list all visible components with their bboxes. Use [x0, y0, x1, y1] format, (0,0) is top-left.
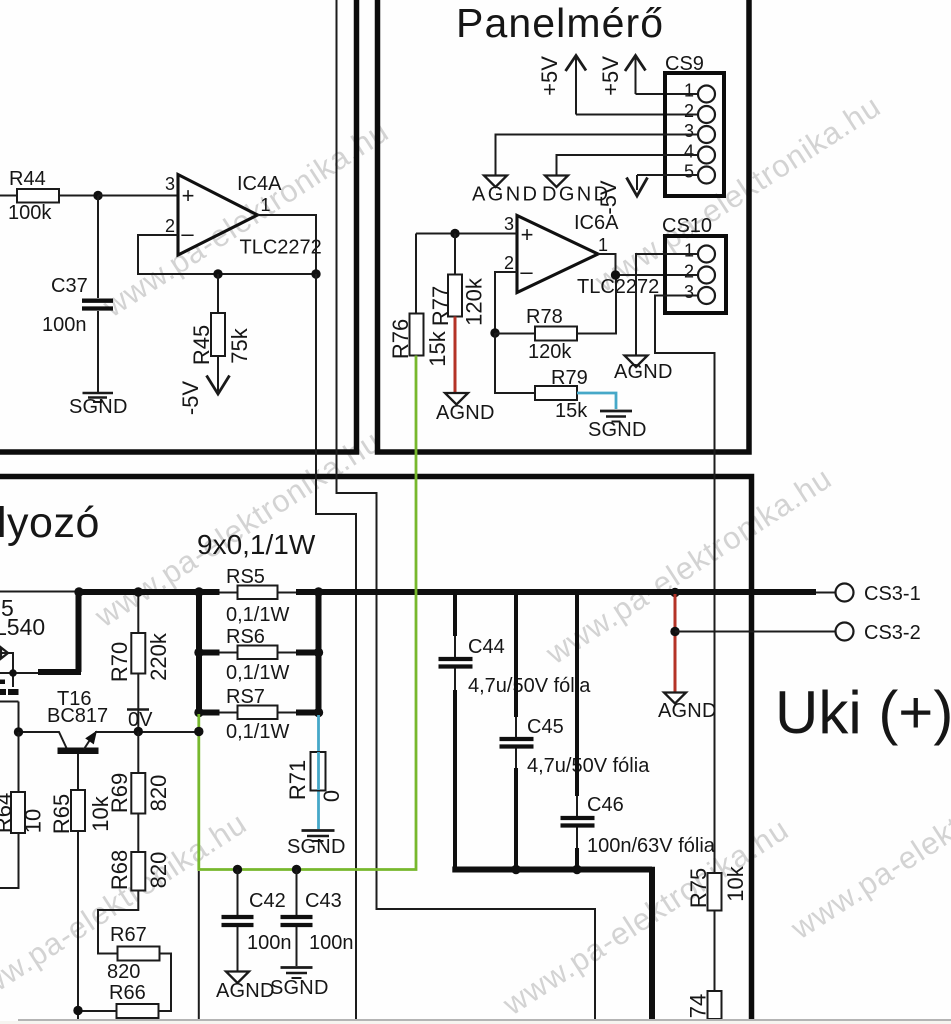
wire IC4A output	[258, 215, 317, 274]
node red/CS3-2	[670, 627, 679, 636]
op-amp IC6A	[504, 212, 659, 298]
svg-text:220k: 220k	[146, 632, 171, 681]
node emitter/green	[194, 727, 203, 736]
svg-text:+5V: +5V	[598, 56, 623, 96]
resistor R78	[495, 275, 616, 363]
svg-text:R71: R71	[285, 760, 310, 800]
ground SGND (C37)	[69, 393, 128, 418]
resistor RS7	[199, 686, 319, 743]
wire R68 to R67	[98, 891, 138, 954]
svg-text:820: 820	[146, 852, 171, 889]
wire to +input IC4A	[98, 195, 178, 197]
node output/feedback/CS10 pin2	[611, 270, 620, 279]
wire left shunt bar	[196, 589, 202, 713]
wire CS10 pin3 down to R75	[655, 296, 715, 874]
resistor R77	[428, 234, 487, 327]
lower block frame	[0, 477, 752, 1020]
node RS6 right	[314, 648, 323, 657]
node RS7 right	[314, 708, 323, 717]
wire thick drain drop of T15	[38, 592, 81, 672]
ground SGND (C43)	[270, 968, 329, 1000]
wire main bus left segment	[76, 589, 220, 595]
svg-text:+: +	[182, 183, 195, 208]
svg-text:R75: R75	[686, 868, 711, 908]
svg-text:0,1/1W: 0,1/1W	[226, 721, 289, 743]
wire right shunt bar	[316, 589, 322, 715]
svg-text:3: 3	[684, 282, 694, 302]
resistor R71	[285, 752, 344, 802]
svg-text:1: 1	[684, 241, 694, 261]
capacitor C37	[42, 196, 113, 393]
svg-text:4,7u/50V fólia: 4,7u/50V fólia	[527, 755, 650, 777]
wire CS10 pin1 to AGND	[636, 254, 698, 355]
svg-text:-5V: -5V	[596, 180, 621, 215]
svg-text:TLC2272: TLC2272	[240, 237, 322, 259]
svg-text:15k: 15k	[555, 400, 588, 422]
ground AGND (CS9)	[472, 176, 539, 206]
svg-text:C46: C46	[587, 794, 624, 816]
wire thin input to bus	[0, 591, 76, 593]
svg-text:AGND: AGND	[658, 700, 717, 722]
resistor R69	[107, 732, 171, 814]
svg-text:R44: R44	[9, 168, 46, 190]
node IC4A output	[311, 269, 320, 278]
svg-text:SGND: SGND	[69, 396, 128, 418]
svg-text:lyozó: lyozó	[0, 499, 100, 547]
svg-text:0,1/1W: 0,1/1W	[226, 604, 289, 626]
svg-text:10: 10	[21, 809, 46, 833]
wire R67 to R66	[159, 954, 172, 1012]
svg-text:Panelmérő: Panelmérő	[456, 0, 664, 46]
connector CS9	[665, 53, 724, 196]
resistor RS6	[199, 626, 319, 684]
svg-text:IC4A: IC4A	[237, 173, 282, 195]
Panelmero block frame	[378, 0, 750, 452]
node bus/T15	[74, 587, 83, 596]
svg-text:75k: 75k	[227, 327, 252, 363]
svg-text:3: 3	[165, 174, 175, 194]
capacitor C42	[222, 870, 292, 972]
svg-text:RS5: RS5	[226, 566, 265, 588]
svg-text:3: 3	[504, 214, 514, 234]
svg-text:BC817: BC817	[47, 705, 108, 727]
svg-text:1: 1	[261, 195, 271, 215]
svg-text:100k: 100k	[8, 202, 52, 224]
svg-text:IC6A: IC6A	[574, 212, 619, 234]
svg-text:–: –	[181, 221, 194, 246]
node R66/R65	[73, 1006, 82, 1015]
svg-text:AGND: AGND	[216, 980, 275, 1002]
ground SGND (R79)	[588, 411, 647, 441]
svg-text:AGND: AGND	[472, 184, 539, 206]
node bus/left bar	[194, 587, 203, 596]
svg-text:820: 820	[146, 775, 171, 812]
node RS6 left	[194, 648, 203, 657]
capacitor C43	[281, 870, 354, 967]
node rail/C46	[572, 865, 581, 874]
wire CS9 pin5 to -5V	[637, 175, 698, 190]
node green/C43	[292, 865, 301, 874]
node gate wire	[9, 669, 17, 677]
node collector/R64	[14, 727, 23, 736]
transistor T16 BC817	[19, 688, 199, 790]
svg-text:AGND: AGND	[436, 402, 495, 424]
svg-text:100n/63V fólia: 100n/63V fólia	[587, 835, 716, 857]
svg-text:-5V: -5V	[178, 381, 203, 416]
svg-text:C37: C37	[51, 275, 88, 297]
wire red R77 to AGND	[454, 317, 457, 393]
svg-text:RS6: RS6	[226, 626, 265, 648]
svg-text:R45: R45	[189, 325, 214, 365]
node bus/AGND tap	[670, 588, 679, 597]
svg-text:C44: C44	[468, 636, 505, 658]
svg-text:R64: R64	[0, 793, 16, 833]
wire CS9 pin3 to AGND	[496, 135, 699, 176]
svg-text:4,7u/50V fólia: 4,7u/50V fólia	[468, 675, 591, 697]
resistor R44	[8, 168, 98, 224]
net 0V symbol	[127, 674, 153, 732]
ground AGND (C42)	[216, 972, 275, 1003]
svg-text:100n: 100n	[309, 932, 354, 954]
ground AGND (CS3)	[658, 693, 717, 723]
svg-text:R65: R65	[49, 794, 74, 834]
node +input/R76/R77	[450, 229, 459, 238]
svg-text:AGND: AGND	[614, 361, 673, 383]
svg-text:9x0,1/1W: 9x0,1/1W	[197, 529, 316, 560]
node bus/R70	[134, 587, 143, 596]
transistor T15 IRL540 (cut)	[0, 595, 45, 732]
svg-text:820: 820	[107, 961, 140, 983]
wire stub below green corner	[198, 871, 200, 1019]
connector CS3-2	[675, 622, 921, 644]
svg-text:1: 1	[684, 81, 694, 101]
svg-text:10k: 10k	[723, 865, 748, 901]
svg-text:R69: R69	[107, 773, 132, 813]
resistor R65	[49, 790, 113, 1022]
svg-text:1: 1	[598, 235, 608, 255]
resistor R68	[107, 814, 171, 891]
wire +5V to CS9 pin2	[576, 114, 698, 116]
svg-text:R70: R70	[107, 642, 132, 682]
svg-text:L540: L540	[0, 614, 45, 640]
resistor R74 (cut at bottom)	[686, 991, 722, 1024]
svg-text:R66: R66	[109, 982, 146, 1004]
power +5V arrow 2	[598, 56, 646, 96]
power -5V arrow (R45)	[178, 356, 230, 415]
op-amp IC4A	[165, 173, 322, 259]
node feedback/R45	[213, 269, 222, 278]
wire CS9 pin4 to DGND	[557, 155, 699, 175]
node RS7 left	[194, 708, 203, 717]
svg-text:120k: 120k	[462, 277, 487, 326]
node 0V junction	[134, 727, 143, 736]
ground AGND (R77)	[436, 393, 495, 424]
wire IC6A -input	[495, 272, 517, 333]
svg-text:Uki (+): Uki (+)	[775, 679, 951, 746]
svg-text:SGND: SGND	[287, 836, 346, 858]
svg-text:CS3-1: CS3-1	[864, 583, 921, 605]
ground AGND (CS10)	[614, 356, 673, 384]
node bus/right bar	[314, 587, 323, 596]
resistor R79	[495, 333, 588, 422]
svg-text:R68: R68	[107, 850, 132, 890]
wire IC6A +input	[416, 233, 517, 235]
resistor R76	[388, 234, 450, 367]
power -5V arrow (CS9)	[596, 178, 648, 215]
power +5V arrow 1	[537, 56, 586, 115]
wire capacitor ground rail	[452, 867, 652, 1019]
node green/C42	[233, 865, 242, 874]
svg-text:5: 5	[684, 162, 694, 182]
svg-text:CS3-2: CS3-2	[864, 622, 921, 644]
wire A from IC4A output down to lower block	[316, 274, 356, 1019]
wire IC6A output	[598, 254, 698, 275]
resistor R64	[0, 732, 46, 888]
svg-text:100n: 100n	[247, 932, 292, 954]
connector CS10	[662, 215, 726, 313]
wire input to R44	[0, 195, 17, 197]
resistor R70	[107, 592, 171, 682]
svg-text:R79: R79	[551, 367, 588, 389]
wire IC4A inverting feedback	[138, 235, 316, 274]
resistor R66	[78, 982, 159, 1018]
capacitor C44	[439, 592, 592, 870]
svg-text:R76: R76	[388, 319, 413, 359]
svg-text:–: –	[520, 259, 533, 284]
wire red bus to AGND	[674, 594, 677, 692]
svg-text:2: 2	[684, 262, 694, 282]
svg-text:C42: C42	[249, 890, 286, 912]
svg-text:SGND: SGND	[270, 977, 329, 999]
resistor R75	[686, 865, 748, 910]
resistor R45	[189, 274, 252, 365]
svg-text:2: 2	[684, 101, 694, 121]
svg-text:C45: C45	[527, 716, 564, 738]
wire green sense loop R76 to shunt	[199, 356, 416, 870]
ground DGND (CS9)	[542, 176, 611, 206]
svg-text:C43: C43	[305, 890, 342, 912]
svg-text:2: 2	[504, 253, 514, 273]
svg-text:0: 0	[319, 790, 344, 802]
node -input/R78/R79	[490, 328, 499, 337]
left block frame	[0, 0, 357, 452]
svg-text:R77: R77	[428, 286, 453, 326]
capacitor C46	[561, 592, 716, 870]
svg-text:R67: R67	[110, 924, 147, 946]
svg-text:0,1/1W: 0,1/1W	[226, 662, 289, 684]
wire blue RS7 to R71	[317, 715, 320, 829]
svg-text:RS7: RS7	[226, 686, 265, 708]
svg-text:2: 2	[165, 216, 175, 236]
wire +5V to CS9 pin1	[636, 93, 699, 95]
node rail/C45	[511, 865, 520, 874]
svg-text:+: +	[521, 222, 534, 247]
wire blue R79 to SGND	[577, 393, 616, 409]
node R44/C37/+in	[93, 191, 102, 200]
svg-text:3: 3	[684, 121, 694, 141]
page bottom edge	[18, 1019, 951, 1021]
ground SGND (R71)	[287, 831, 346, 859]
svg-text:SGND: SGND	[588, 419, 647, 441]
resistor RS5	[220, 566, 297, 626]
svg-text:4: 4	[684, 142, 694, 162]
wire R75 to R74	[714, 911, 716, 992]
resistor R67	[107, 924, 160, 983]
capacitor C45	[500, 592, 651, 870]
connector CS3-1	[816, 583, 921, 605]
svg-text:+5V: +5V	[537, 56, 562, 96]
svg-text:100n: 100n	[42, 314, 87, 336]
wire main bus right segment	[296, 589, 816, 595]
svg-text:TLC2272: TLC2272	[577, 276, 659, 298]
wire B vertical from top	[337, 0, 596, 1019]
svg-text:CS10: CS10	[662, 215, 712, 237]
svg-text:15k: 15k	[425, 330, 450, 366]
svg-text:120k: 120k	[528, 341, 572, 363]
svg-text:R78: R78	[526, 306, 563, 328]
